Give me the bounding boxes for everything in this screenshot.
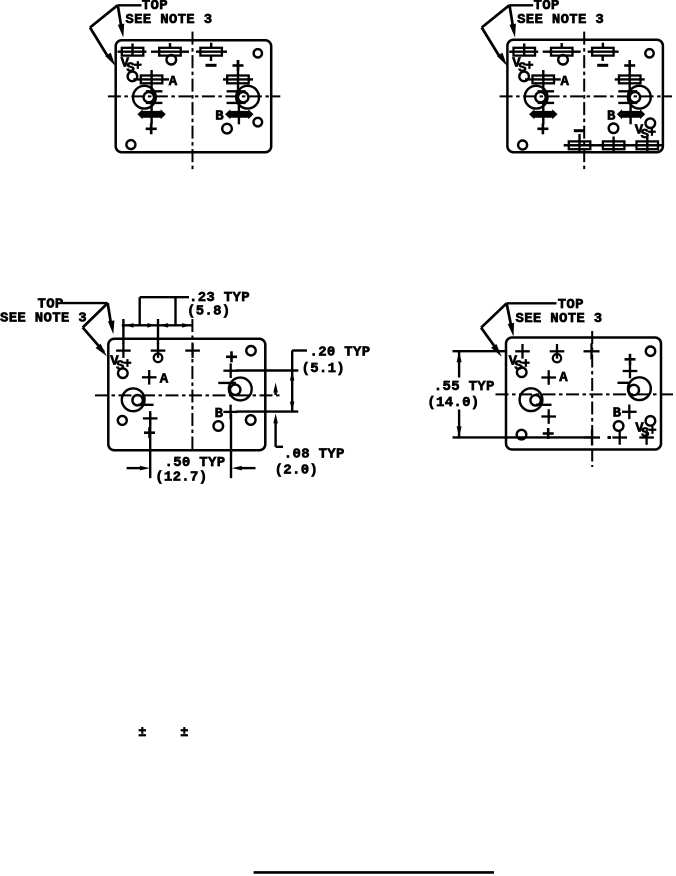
view 2 bottom slot row line [564, 144, 663, 146]
footer rule [254, 871, 494, 874]
view 3 dim .20 arrows [290, 371, 295, 412]
view 3 hole bottom-middle-right [214, 421, 224, 431]
view 4 hole below Vs+ [517, 368, 527, 378]
svg-text:SEE NOTE 3: SEE NOTE 3 [125, 12, 212, 28]
view 1 vertical centerline [192, 32, 194, 171]
view 1 panel outline [116, 40, 272, 152]
view 3 label A [160, 372, 169, 388]
svg-text:(12.7): (12.7) [155, 470, 207, 486]
view 3 label TOP [38, 296, 64, 312]
view 4 label A [559, 370, 568, 386]
view 3 dim .08 label mm [275, 463, 319, 479]
svg-text:(5.1): (5.1) [302, 361, 346, 377]
view 1 label SEE NOTE 3 [125, 12, 212, 28]
svg-text:A: A [160, 372, 169, 388]
view 2 label Vs+ bottom [635, 122, 656, 143]
view 4 leader lines [481, 303, 556, 352]
view 3 eyelet terminal left [122, 388, 154, 411]
view 1 leader lines [90, 5, 142, 56]
svg-text:B: B [215, 109, 224, 125]
footer plus-minus marks [138, 726, 188, 741]
view 2 eyelet terminal left [525, 86, 554, 109]
view 3 dim .23 label [189, 290, 250, 306]
view 4 hole cross top 2 [550, 344, 565, 362]
view 1 slot terminal A [133, 70, 169, 90]
view 4 hole bottom-left [517, 430, 527, 440]
view 3 hole right-edge [246, 415, 256, 425]
view 1 label TOP [142, 0, 168, 14]
view 1 slot terminal 3 [196, 43, 227, 61]
view 4 dim .55 label mm [427, 395, 479, 411]
view 1 slot terminal right [223, 60, 253, 90]
view 2 vertical centerline [583, 32, 585, 172]
view 4 hole below B [614, 421, 624, 431]
view 2 leader arrow to left edge [497, 53, 507, 66]
svg-text:A: A [169, 74, 178, 90]
svg-text:B: B [215, 406, 224, 422]
view 4 eyelet terminal left [520, 388, 552, 411]
view 3 ext line B row [236, 410, 298, 412]
svg-text:A: A [559, 370, 568, 386]
view 3 dim .23 line [122, 324, 192, 326]
view 3 plus mark right [226, 351, 237, 362]
svg-text:SEE NOTE 3: SEE NOTE 3 [0, 311, 87, 327]
view 2 bottom slot terminal 2 [597, 137, 630, 153]
view 1 eyelet terminal left [133, 86, 162, 109]
view 3 vertical centerline [191, 319, 193, 451]
view 4 label SEE NOTE 3 [516, 311, 603, 327]
view 1 plus mark right [233, 60, 244, 71]
view 4 hole cross A [541, 370, 556, 385]
view 4 dim .55 label [434, 379, 495, 395]
svg-text:SEE NOTE 3: SEE NOTE 3 [516, 311, 603, 327]
svg-text:B: B [613, 406, 622, 422]
view 3 panel outline [108, 339, 265, 451]
view 1 hole right-edge [253, 118, 262, 127]
view 1 leader arrow to top edge [118, 24, 124, 38]
svg-text:.50 TYP: .50 TYP [165, 455, 226, 471]
view 4 dim .55 ext line bottom [453, 436, 594, 438]
svg-text:.20 TYP: .20 TYP [310, 344, 371, 360]
view 2 minus mark bottom [574, 129, 585, 132]
view 3 dim .20 line [292, 351, 307, 412]
view 3 corner hole top-right [246, 346, 255, 355]
view 2 plus mark bottom-left [537, 123, 548, 134]
view 4 hole cross B [622, 405, 637, 420]
svg-text:B: B [607, 109, 616, 125]
svg-text:±: ± [138, 726, 146, 741]
view 3 hole cross top 2 [151, 343, 166, 362]
view 2 bottom slot terminal 3 [631, 137, 662, 153]
view 3 dim .50 ext line right [230, 414, 232, 479]
view 3 dim .20 label mm [302, 361, 346, 377]
view 3 leader arrow lower [96, 344, 107, 356]
svg-text:.55 TYP: .55 TYP [434, 379, 495, 395]
view 3 hole cross A [142, 370, 157, 385]
view 2 slot terminal 3 [588, 43, 619, 61]
view 1 filled terminal right [225, 103, 253, 124]
view 2 label TOP [534, 0, 560, 14]
view 2 panel outline [507, 40, 663, 152]
view 4 hole cross below left [541, 409, 556, 424]
view 3 dim .50 label [165, 455, 226, 471]
view 2 label A [561, 74, 570, 90]
view 3 hole cross top 1 [116, 343, 131, 358]
view 2 corner hole bottom-left [518, 141, 527, 150]
view 2 horizontal centerline [500, 95, 672, 97]
view 2 filled terminal right [617, 103, 645, 124]
view 4 label Vs+ bottom [635, 421, 656, 442]
view 3 dim .20 label [310, 344, 371, 360]
view 3 dim .23 label mm [187, 304, 231, 320]
view 3 label B [215, 406, 224, 422]
view 4 label TOP [558, 297, 584, 313]
view 3 leader arrow to top edge [108, 320, 114, 334]
view 4 eyelet terminal right [618, 377, 651, 400]
view 3 hole cross right top [223, 363, 238, 378]
view 3 dim .50 label mm [155, 470, 207, 486]
view 3 label SEE NOTE 3 [0, 311, 87, 327]
view 1 label A [169, 74, 178, 90]
view 2 hole below Vs+ [519, 72, 529, 82]
svg-text:±: ± [180, 726, 188, 741]
view 4 plus mark bottom-left [543, 428, 554, 439]
view 4 dim .55 arrows [457, 351, 462, 437]
view 3 line through bottom-left crosses [149, 413, 151, 478]
view 4 hole near Vs+ bottom [646, 416, 656, 426]
view 3 ext line right top [236, 369, 298, 371]
svg-text:(5.8): (5.8) [187, 304, 231, 320]
svg-text:SEE NOTE 3: SEE NOTE 3 [517, 12, 604, 28]
view 1 leader arrow to left edge [105, 53, 115, 66]
view 4 hole cross right top [623, 364, 638, 379]
svg-text:.08 TYP: .08 TYP [284, 447, 345, 463]
view 4 panel outline [506, 338, 661, 450]
view 4 corner hole top-right [646, 347, 655, 356]
view 4 label B [613, 406, 622, 422]
view 1 filled terminal left [137, 103, 165, 124]
view 3 hole cross B [223, 405, 238, 420]
view 2 hole near Vs+ bottom [646, 118, 656, 128]
view 1 slot terminal 2 [151, 43, 189, 65]
view 4 horizontal centerline [496, 393, 675, 395]
svg-text:(14.0): (14.0) [427, 395, 479, 411]
view 4 hole cross bottom center [584, 430, 600, 446]
view 4 hole cross bottom right [639, 430, 654, 445]
view 4 leader arrow lower [491, 344, 502, 357]
view 2 leader arrow to top edge [510, 24, 516, 38]
view 4 plus mark right [625, 354, 636, 365]
view 2 minus mark top [597, 64, 608, 67]
view 3 dim .23 arrows [125, 323, 192, 328]
view 2 label B [607, 109, 616, 125]
view 3 horizontal centerline [95, 394, 283, 396]
view 2 slot terminal 1 [509, 44, 538, 57]
svg-text:A: A [561, 74, 570, 90]
view 1 label B [215, 109, 224, 125]
view 4 dim .55 line [458, 351, 460, 437]
view 3 dim .23 staple [140, 297, 189, 325]
view 1 minus mark [206, 64, 217, 67]
view 3 dim .50 arrows [127, 466, 256, 471]
view 4 dim .55 ext line top [453, 350, 506, 352]
view 3 dim .08 arrow middle [273, 383, 278, 396]
view 2 hole bottom-middle-right [609, 124, 619, 134]
view 4 vertical centerline [591, 331, 593, 467]
view 2 bottom slot terminal 1 [564, 134, 596, 152]
view 2 filled terminal left [529, 103, 557, 124]
view 1 hole bottom-middle-right [222, 124, 232, 134]
view 1 slot terminal 1 [118, 44, 147, 57]
view 1 label Vs+ [121, 56, 142, 77]
view 3 eyelet terminal right [218, 378, 251, 401]
view 4 hole cross top 1 [515, 344, 530, 359]
view 3 hole cross top 3 [185, 343, 200, 358]
view 3 leader lines [62, 303, 112, 352]
view 2 eyelet terminal right [618, 86, 650, 109]
view 1 hole below Vs+ [128, 72, 138, 82]
view 3 label Vs+ [110, 354, 131, 375]
view 4 label Vs+ top [509, 354, 530, 375]
svg-text:(2.0): (2.0) [275, 463, 319, 479]
view 1 eyelet terminal right [227, 86, 259, 109]
view 1 corner hole bottom-left [126, 140, 135, 149]
view 4 hole cross top 3 [584, 343, 600, 359]
view 3 hole left [118, 416, 127, 425]
view 2 slot terminal right [615, 60, 645, 90]
view 3 hole cross bottom-left [143, 411, 158, 426]
view 1 corner hole top-right [254, 49, 262, 57]
view 2 label Vs+ top [512, 56, 533, 77]
view 2 plus mark right [624, 60, 635, 71]
view 2 leader lines [482, 5, 534, 56]
view 4 leader arrow to top edge [508, 323, 514, 337]
view 3 plus mark bottom-left [144, 427, 155, 438]
view 2 slot terminal A [525, 70, 561, 90]
view 1 plus mark bottom-left [146, 123, 157, 134]
view 2 label SEE NOTE 3 [517, 12, 604, 28]
view 3 dim .08 label [284, 447, 345, 463]
view 3 hole below Vs+ [118, 368, 128, 378]
view 4 hole cross bottom mid [608, 430, 628, 445]
view 3 dim ext lines top [123, 319, 158, 344]
view 2 slot terminal 2 [543, 43, 581, 65]
view 1 horizontal centerline [108, 95, 280, 97]
view 2 corner hole top-right [645, 49, 653, 57]
view 3 dim .08 leader [273, 413, 283, 446]
